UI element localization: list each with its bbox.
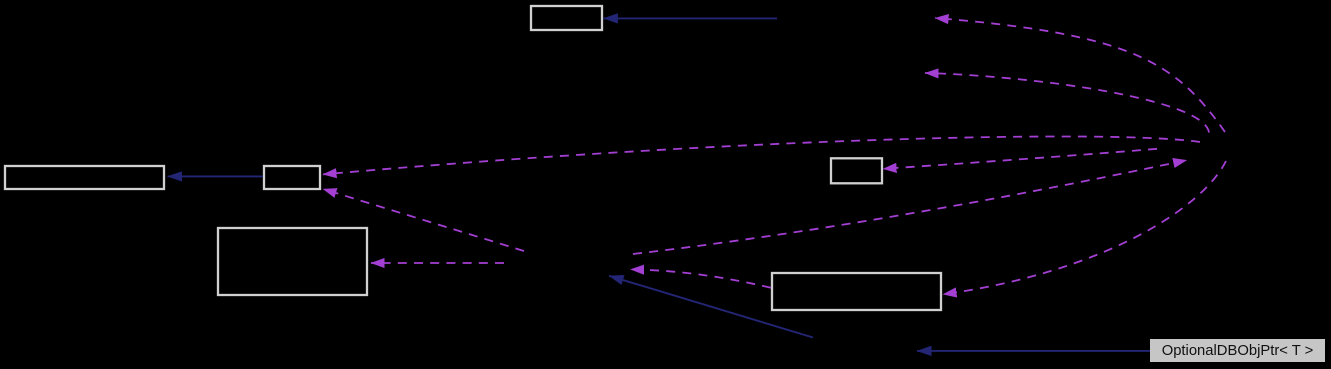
magenta dashed edge M8: invisible nE to n4 bbox=[371, 262, 504, 264]
node box n6 (middle-bottom) bbox=[772, 273, 941, 310]
magenta dashed edge M7: invisible nE to invisible nD (arrow right) bbox=[633, 160, 1187, 254]
blue edge B2: n3 to n2 bbox=[168, 175, 264, 177]
magenta dashed edge M9: invisible nE to n3 bottom arrow bbox=[323, 189, 524, 251]
node box n4 (large tall) bbox=[218, 228, 367, 295]
node box n2 (left long) bbox=[5, 166, 164, 189]
node box n3 (small) bbox=[264, 166, 320, 189]
magenta dashed edge M3: fan to n3 top arrow bbox=[323, 136, 1200, 174]
magenta dashed edge M5: fan to n6 bbox=[943, 161, 1226, 294]
blue edge B1: invisible node nA to n1 bbox=[603, 17, 777, 19]
magenta dashed edge M1: fan to invisible nA bbox=[935, 18, 1225, 132]
svg-text:OptionalDBObjPtr< T >: OptionalDBObjPtr< T > bbox=[1162, 343, 1314, 359]
grey current node: OptionalDBObjPtr< T > bbox=[1150, 339, 1325, 362]
node box n5 (middle small) bbox=[831, 158, 882, 183]
magenta dashed edge M6: n6 to invisible nE bbox=[631, 269, 772, 287]
magenta dashed edge M2: fan to invisible nB bbox=[925, 73, 1209, 133]
blue edge B4: grey node to invisible nF bbox=[917, 350, 1150, 352]
blue edge B3: invisible nF to invisible nE (diagonal) bbox=[609, 276, 813, 338]
node box n1 (top) bbox=[531, 6, 602, 30]
magenta dashed edge M4: fan to n5 bbox=[883, 149, 1157, 169]
